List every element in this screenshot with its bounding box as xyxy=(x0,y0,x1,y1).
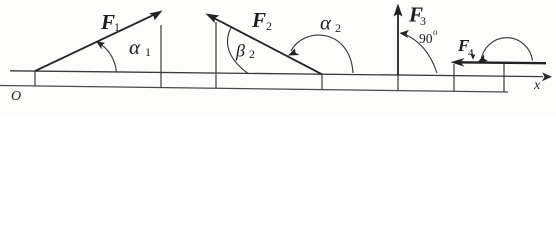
x-axis top line xyxy=(10,71,543,77)
svg-text:2: 2 xyxy=(335,21,341,35)
angle alpha2 arc with arrow xyxy=(291,35,353,73)
force F4 arrowhead xyxy=(451,58,465,67)
svg-text:F: F xyxy=(251,8,266,32)
tick at x=504 xyxy=(503,64,505,93)
tick / drop line at x=161 xyxy=(160,25,162,88)
force F2 arrowhead xyxy=(206,14,220,23)
x-axis arrowhead xyxy=(542,72,552,81)
180 degree semicircle arc xyxy=(481,38,533,61)
svg-text:O: O xyxy=(11,89,21,104)
svg-text:F: F xyxy=(100,10,115,34)
force F1 arrowhead xyxy=(149,11,163,21)
svg-text:1: 1 xyxy=(114,20,120,34)
force F2 vector xyxy=(210,16,322,74)
svg-text:1: 1 xyxy=(145,45,151,59)
force F4 vector (points left) xyxy=(455,61,546,64)
svg-text:x: x xyxy=(533,78,541,93)
force F1 vector xyxy=(35,13,158,71)
force F3 vector xyxy=(397,12,399,75)
tick at origin x=35 xyxy=(34,71,36,86)
svg-text:2: 2 xyxy=(266,19,272,33)
tick at x=454 xyxy=(453,64,455,91)
svg-text:o: o xyxy=(433,27,438,37)
svg-text:α: α xyxy=(129,35,141,59)
svg-text:2: 2 xyxy=(249,47,255,61)
svg-text:3: 3 xyxy=(420,14,426,28)
F4 label leader arrow xyxy=(472,50,473,56)
tick / drop line at x=216 xyxy=(215,22,217,88)
alpha2 arc arrowhead xyxy=(288,49,300,56)
alpha1 arc arrowhead xyxy=(96,41,105,50)
angle alpha1 arc xyxy=(98,43,117,73)
svg-text:β: β xyxy=(235,41,245,61)
bottom parallel line xyxy=(0,86,508,93)
svg-text:90: 90 xyxy=(419,31,433,46)
tick at x=398 xyxy=(397,75,399,91)
angle beta2 arc xyxy=(227,28,248,74)
svg-text:α: α xyxy=(320,11,332,35)
semicircle end arrowhead xyxy=(478,55,489,63)
90 degree arc with arrow xyxy=(403,34,437,74)
force F3 arrowhead xyxy=(394,4,403,17)
90 arc arrowhead xyxy=(400,30,410,38)
tick at x=322 xyxy=(321,74,323,90)
